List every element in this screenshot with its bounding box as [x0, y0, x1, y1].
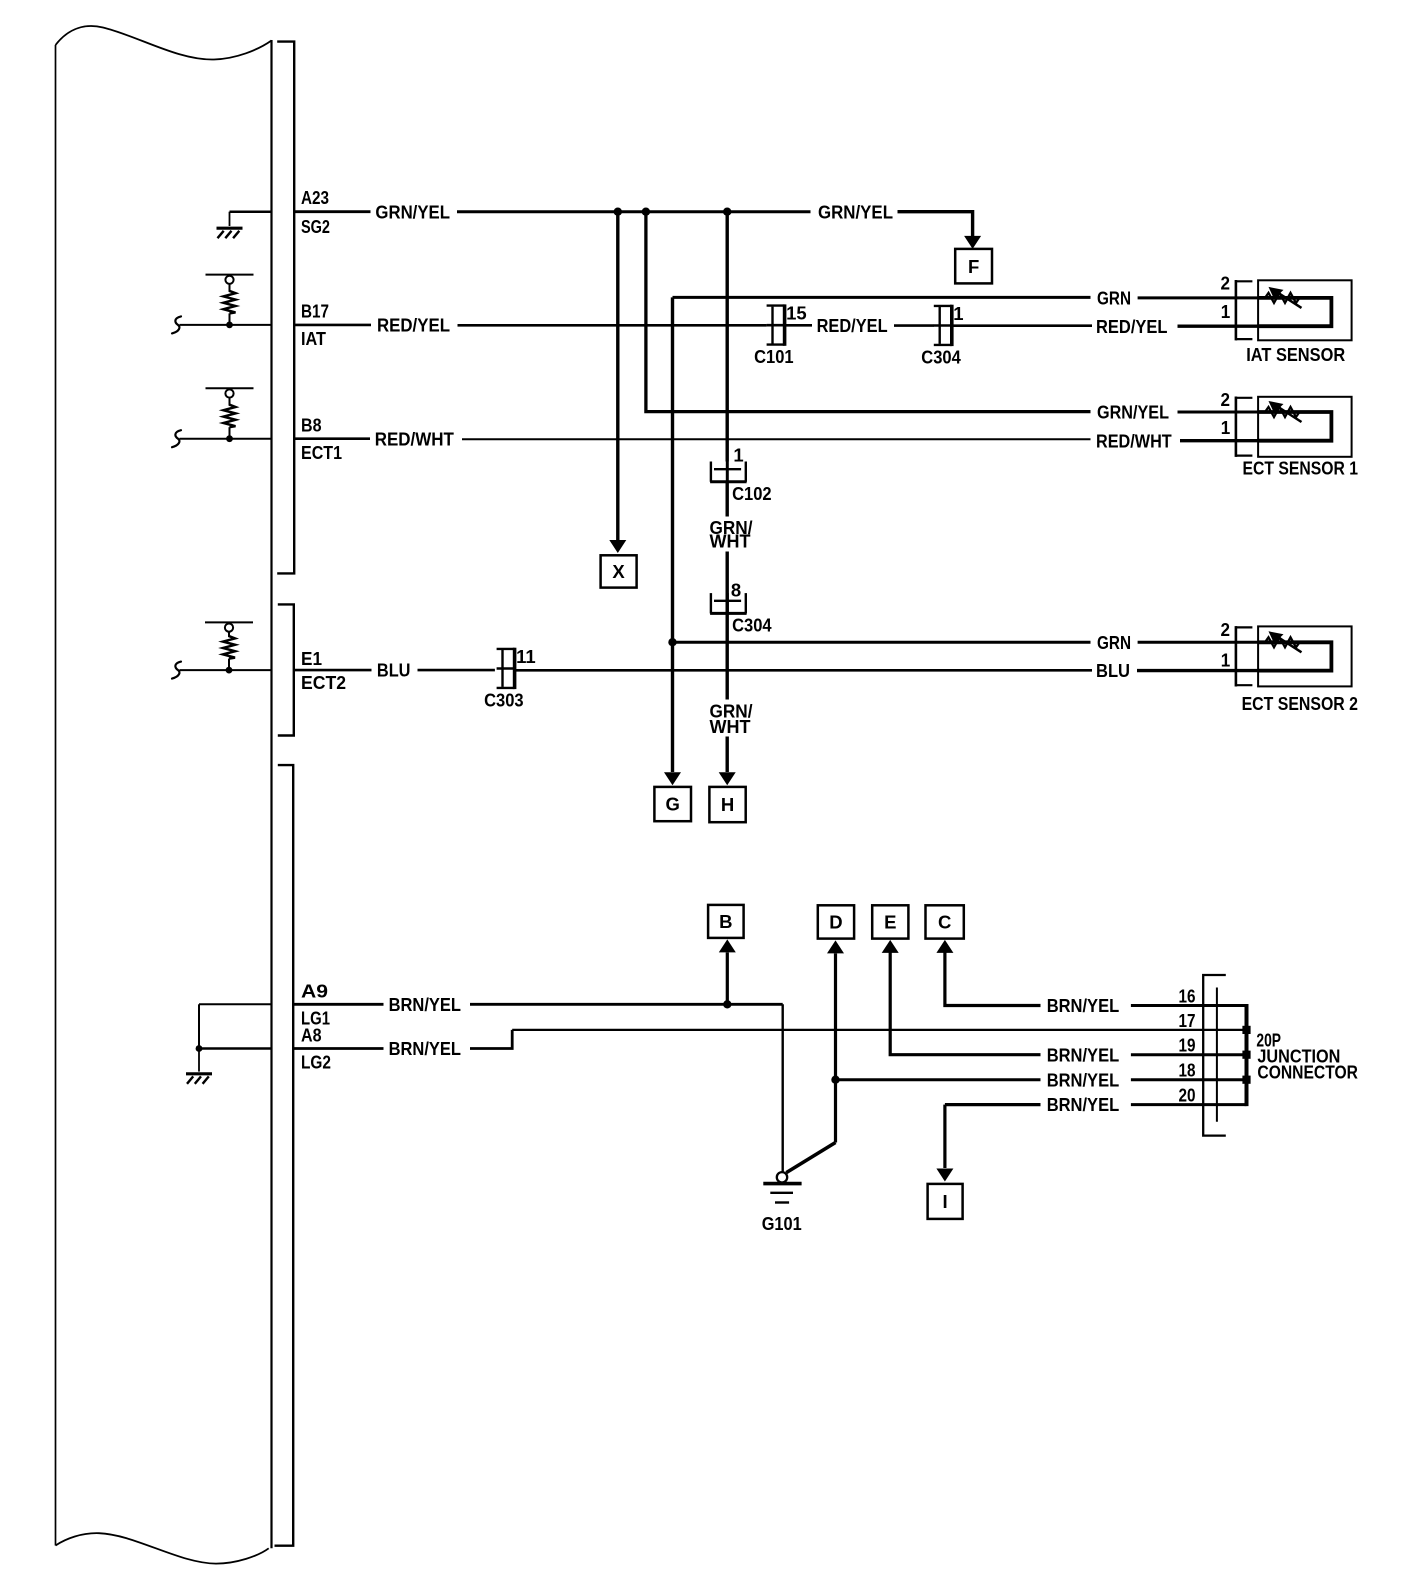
svg-text:IAT: IAT: [301, 328, 327, 349]
svg-text:RED/YEL: RED/YEL: [817, 315, 888, 336]
svg-text:X: X: [612, 561, 625, 582]
svg-text:ECT1: ECT1: [301, 442, 342, 463]
svg-text:C304: C304: [921, 346, 961, 367]
svg-text:20: 20: [1179, 1085, 1196, 1106]
svg-text:GRN: GRN: [1097, 288, 1131, 309]
svg-text:IAT SENSOR: IAT SENSOR: [1246, 344, 1345, 365]
svg-text:BRN/YEL: BRN/YEL: [1047, 995, 1120, 1016]
svg-text:A23: A23: [301, 187, 329, 208]
svg-text:A9: A9: [301, 980, 328, 1001]
svg-text:B: B: [719, 911, 732, 932]
svg-text:1: 1: [1221, 649, 1231, 670]
svg-text:1: 1: [1221, 417, 1231, 438]
svg-text:I: I: [943, 1191, 948, 1212]
svg-text:1: 1: [1221, 301, 1231, 322]
svg-text:A8: A8: [301, 1025, 322, 1046]
svg-text:2: 2: [1221, 389, 1231, 410]
svg-text:19: 19: [1179, 1035, 1196, 1056]
svg-text:WHT: WHT: [710, 716, 752, 737]
svg-text:CONNECTOR: CONNECTOR: [1257, 1061, 1358, 1082]
svg-text:8: 8: [731, 579, 741, 600]
svg-text:RED/WHT: RED/WHT: [375, 429, 455, 450]
svg-text:BRN/YEL: BRN/YEL: [1047, 1069, 1120, 1090]
svg-text:LG2: LG2: [301, 1052, 331, 1073]
svg-text:15: 15: [786, 303, 807, 324]
svg-text:B17: B17: [301, 300, 329, 321]
svg-text:H: H: [721, 794, 734, 815]
svg-text:BRN/YEL: BRN/YEL: [1047, 1044, 1120, 1065]
svg-text:G101: G101: [762, 1213, 802, 1234]
svg-text:RED/YEL: RED/YEL: [1096, 316, 1168, 337]
svg-text:C304: C304: [732, 615, 772, 636]
svg-text:RED/WHT: RED/WHT: [1096, 430, 1172, 451]
svg-text:11: 11: [516, 646, 536, 667]
svg-text:RED/YEL: RED/YEL: [377, 315, 450, 336]
svg-text:1: 1: [733, 444, 743, 465]
svg-text:D: D: [829, 912, 842, 933]
svg-text:2: 2: [1221, 273, 1231, 294]
svg-text:18: 18: [1179, 1060, 1196, 1081]
svg-text:GRN/YEL: GRN/YEL: [375, 201, 450, 222]
svg-text:F: F: [968, 256, 979, 277]
svg-text:B8: B8: [301, 414, 322, 435]
svg-text:BRN/YEL: BRN/YEL: [389, 1038, 461, 1059]
svg-text:G: G: [666, 794, 680, 815]
svg-text:ECT2: ECT2: [301, 672, 346, 693]
svg-text:GRN/YEL: GRN/YEL: [1097, 401, 1169, 422]
svg-text:SG2: SG2: [301, 216, 330, 237]
svg-text:17: 17: [1179, 1010, 1196, 1031]
svg-text:GRN/YEL: GRN/YEL: [818, 201, 893, 222]
svg-text:BLU: BLU: [377, 660, 411, 681]
svg-text:16: 16: [1179, 986, 1196, 1007]
svg-text:BRN/YEL: BRN/YEL: [389, 994, 461, 1015]
svg-text:2: 2: [1221, 619, 1231, 640]
svg-text:ECT SENSOR 2: ECT SENSOR 2: [1242, 693, 1358, 714]
svg-text:WHT: WHT: [710, 531, 752, 552]
svg-text:E: E: [884, 912, 896, 933]
svg-text:C101: C101: [754, 346, 794, 367]
svg-text:C102: C102: [732, 483, 772, 504]
svg-text:C: C: [938, 912, 951, 933]
svg-text:GRN: GRN: [1097, 632, 1131, 653]
svg-text:1: 1: [953, 303, 963, 324]
svg-text:C303: C303: [484, 689, 523, 710]
svg-text:ECT SENSOR 1: ECT SENSOR 1: [1243, 458, 1359, 479]
svg-text:E1: E1: [301, 648, 322, 669]
svg-text:BLU: BLU: [1096, 660, 1130, 681]
svg-text:BRN/YEL: BRN/YEL: [1047, 1094, 1120, 1115]
